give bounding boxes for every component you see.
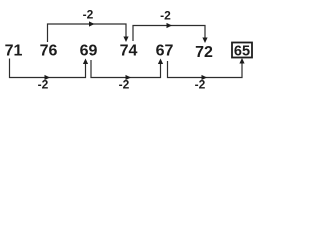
svg-text:71: 71 xyxy=(5,43,23,60)
svg-text:69: 69 xyxy=(80,43,98,60)
svg-text:-2: -2 xyxy=(160,9,171,23)
svg-text:-2: -2 xyxy=(119,78,130,92)
svg-text:-2: -2 xyxy=(195,78,206,92)
svg-text:-2: -2 xyxy=(38,78,49,92)
svg-text:74: 74 xyxy=(120,43,138,60)
svg-text:67: 67 xyxy=(156,43,174,60)
svg-text:76: 76 xyxy=(40,43,58,60)
svg-text:-2: -2 xyxy=(83,8,94,22)
svg-text:72: 72 xyxy=(195,44,213,61)
